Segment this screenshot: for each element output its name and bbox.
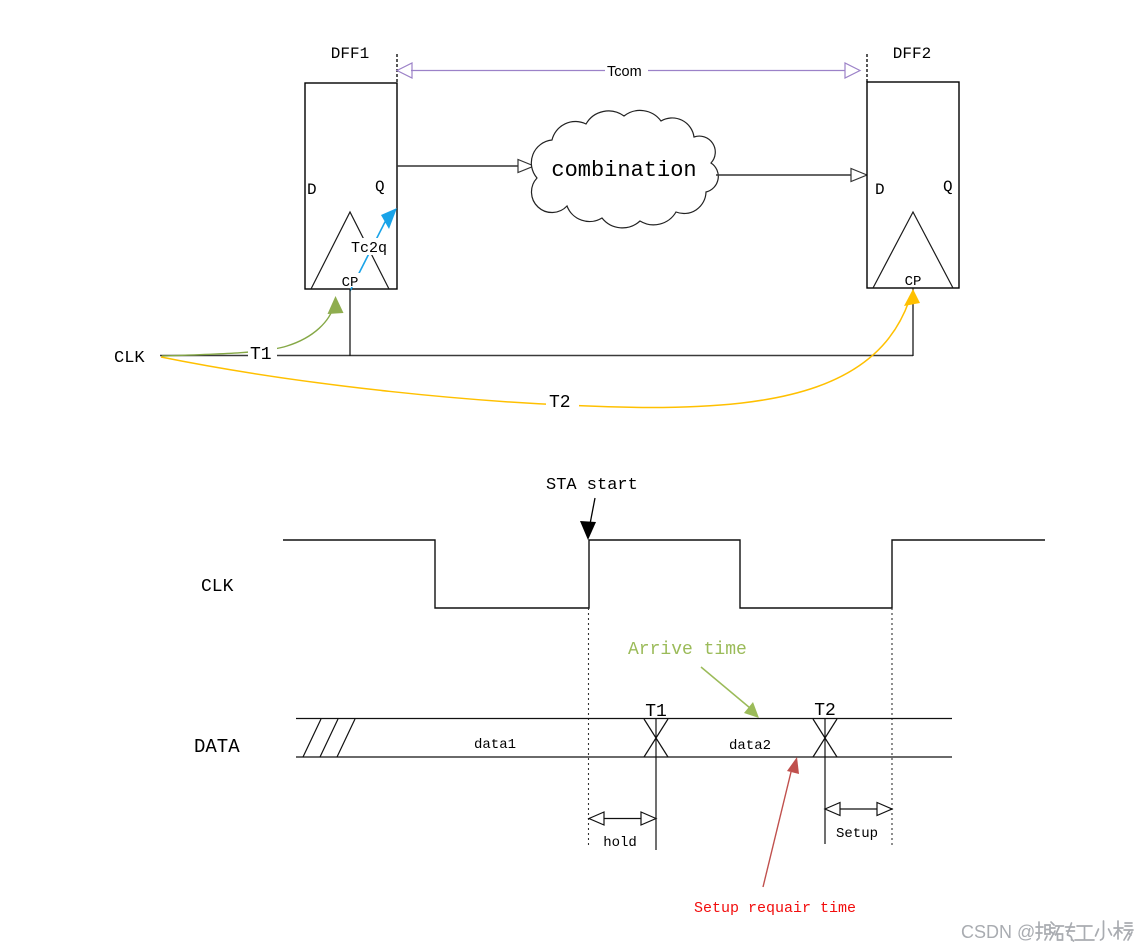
svg-text:T2: T2	[549, 393, 571, 413]
Tcom label	[605, 61, 648, 79]
svg-text:CP: CP	[342, 275, 359, 291]
svg-text:T1: T1	[250, 345, 272, 365]
combination cloud	[531, 110, 718, 227]
svg-text:D: D	[875, 181, 885, 199]
flip-flop DFF1 box	[305, 83, 397, 289]
flip-flop DFF2 box	[867, 82, 959, 288]
glyph yang	[1114, 921, 1133, 940]
hatch marks	[303, 719, 321, 757]
CLK waveform	[283, 540, 1045, 608]
svg-text:Q: Q	[943, 178, 953, 196]
watermark chinese glyphs	[1036, 921, 1133, 941]
clock wire up to DFF1 CP	[349, 289, 351, 356]
dashed marker at next edge	[891, 608, 893, 845]
wire cloud to DFF2	[716, 174, 852, 176]
Tc2q delay arrow (blue)	[350, 208, 397, 291]
T2 marker line	[824, 719, 826, 844]
T2 clock path curve (orange)	[161, 301, 909, 408]
arrowhead into DFF2 D	[851, 169, 867, 182]
label T2	[546, 390, 579, 409]
dotted guide above DFF2	[866, 54, 868, 82]
svg-text:DFF1: DFF1	[331, 45, 369, 63]
Tcom dimension arrow	[397, 63, 860, 78]
svg-text:T2: T2	[814, 701, 836, 721]
glyph gong	[1075, 926, 1094, 940]
arrowhead into cloud	[518, 160, 534, 173]
T1 clock path curve (green)	[162, 305, 334, 356]
DFF2 clock triangle	[873, 212, 953, 288]
Setup require arrow (red)	[763, 772, 791, 887]
wire Q to cloud	[397, 165, 519, 167]
glyph zhuan	[1056, 923, 1075, 941]
svg-text:Tc2q: Tc2q	[351, 240, 387, 257]
svg-text:CLK: CLK	[201, 577, 234, 597]
T1 marker line	[655, 719, 657, 850]
pin CP of DFF1	[341, 273, 360, 287]
svg-text:D: D	[307, 181, 317, 199]
Arrive time arrow (green)	[701, 667, 750, 708]
svg-text:CP: CP	[905, 274, 922, 290]
svg-text:T1: T1	[645, 702, 667, 722]
data transition X at T1	[644, 719, 668, 757]
svg-text:Arrive time: Arrive time	[628, 640, 747, 660]
svg-text:combination: combination	[551, 158, 696, 183]
dotted guide above DFF1	[396, 54, 398, 84]
clock wire up to DFF2 CP	[912, 288, 914, 356]
svg-text:hold: hold	[603, 835, 637, 851]
label Tc2q	[350, 238, 389, 255]
glyph ban	[1036, 922, 1055, 940]
svg-text:CLK: CLK	[114, 349, 145, 368]
glyph xiao	[1096, 921, 1112, 940]
svg-text:Tcom: Tcom	[607, 64, 642, 80]
clock wire horizontal	[160, 355, 913, 357]
svg-text:Q: Q	[375, 178, 385, 196]
svg-text:data1: data1	[474, 737, 516, 753]
data transition X at T2	[813, 719, 837, 757]
svg-text:STA start: STA start	[546, 476, 638, 495]
Setup interval double arrow	[825, 803, 892, 816]
svg-text:CSDN @: CSDN @	[961, 922, 1035, 942]
svg-text:DATA: DATA	[194, 736, 240, 758]
DFF1 clock triangle	[311, 212, 389, 289]
dashed marker at STA edge	[588, 608, 590, 846]
hold interval double arrow	[589, 812, 656, 825]
DATA bus band	[296, 718, 952, 720]
STA start arrow	[590, 498, 595, 524]
svg-text:data2: data2	[729, 738, 771, 754]
svg-text:DFF2: DFF2	[893, 45, 931, 63]
svg-text:Setup: Setup	[836, 826, 878, 842]
label T1	[248, 343, 277, 360]
svg-text:Setup requair time: Setup requair time	[694, 900, 856, 917]
